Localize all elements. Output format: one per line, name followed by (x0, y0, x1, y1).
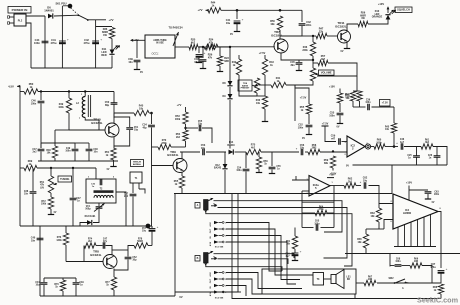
node R59 top (332, 150, 334, 152)
wire C56-R58 (305, 151, 308, 153)
svg-text:C46: C46 (400, 138, 405, 141)
wire osc link2 (75, 142, 89, 144)
wire speaker line (377, 282, 441, 284)
ground gnd C63 (425, 194, 435, 204)
label C46b (396, 138, 405, 145)
capacitor C50 (105, 92, 118, 111)
svg-text:47k: 47k (209, 41, 214, 44)
node det out (393, 145, 396, 148)
svg-text:C25: C25 (407, 155, 412, 157)
svg-text:R61: R61 (286, 241, 291, 243)
wire C52b down (114, 260, 128, 271)
svg-text:C48: C48 (93, 148, 98, 151)
wire R53 bot (185, 124, 187, 130)
wire top rail TR7 (221, 9, 302, 11)
wire LED to rail (111, 56, 113, 69)
wire C49 top (74, 143, 76, 149)
wire D13 left (80, 223, 87, 227)
resistor R52 (105, 148, 116, 160)
resistor R59 (324, 156, 336, 168)
resistor R69 (24, 160, 37, 171)
svg-text:PL2: PL2 (18, 20, 23, 23)
resistor R51b (345, 91, 356, 101)
wire R42 top (238, 55, 240, 59)
svg-text:C54: C54 (237, 167, 242, 170)
svg-text:BA243: BA243 (214, 167, 222, 170)
wire D6 to junction (54, 14, 78, 17)
wire fb c65 l (302, 227, 314, 229)
capacitor C42b (299, 24, 306, 26)
svg-text:C47: C47 (32, 148, 37, 151)
svg-text:560R: 560R (137, 241, 143, 243)
wire RV2 out (259, 84, 271, 86)
wire base from R49 (69, 129, 71, 131)
wire C41c top (43, 278, 45, 282)
wire rail to R69 (20, 167, 24, 169)
label R56b (345, 94, 350, 100)
wire pair top (353, 90, 360, 92)
svg-text:R78: R78 (138, 239, 143, 241)
svg-text:4k7: 4k7 (251, 146, 256, 149)
ic IF transformer T2 (86, 177, 116, 204)
wire jack1 sleeve (206, 210, 352, 266)
capacitor C42 (84, 38, 103, 46)
capacitor C63 (425, 192, 432, 194)
svg-text:SW2: SW2 (389, 278, 395, 280)
wire C38 down (32, 194, 34, 226)
capacitor C40a (128, 58, 140, 64)
wire pot-R72 (50, 193, 52, 197)
wire rail to R50b (20, 91, 24, 93)
capacitor C66 (285, 250, 301, 259)
svg-text:10p: 10p (198, 124, 203, 126)
svg-text:1N4001: 1N4001 (44, 9, 54, 13)
wire main bus (174, 193, 392, 195)
wire C51 bot (114, 130, 130, 146)
wire R76 bot (62, 291, 64, 296)
wire TR8 emit (113, 269, 115, 278)
svg-text:R67: R67 (368, 277, 373, 279)
node tune1 (50, 167, 52, 169)
wire C49 gnd (74, 152, 76, 162)
wire C34 col (151, 113, 153, 124)
wire bus n6 (226, 236, 300, 280)
resistor R50b (24, 83, 38, 94)
switch SW1 (63, 6, 89, 21)
wire R42 bot (239, 75, 257, 96)
resistor R25 (189, 39, 198, 50)
svg-text:+7V: +7V (197, 8, 202, 12)
wire pair botR (359, 101, 361, 107)
svg-text:100n: 100n (329, 114, 335, 117)
led D11 (101, 46, 119, 57)
capacitor C36b (368, 104, 370, 110)
svg-text:100k: 100k (58, 106, 64, 109)
wire R56 to LED (368, 20, 388, 25)
resistor R50 (270, 16, 282, 30)
wire fb top (302, 201, 334, 203)
ground gnd TR11 (341, 49, 351, 54)
label 4.5V (8, 84, 20, 88)
wire TR9 emit (181, 173, 183, 177)
wire tone rail (353, 164, 448, 166)
resistor R26 (204, 44, 218, 49)
svg-text:+10V: +10V (378, 2, 384, 6)
wire VC1 down (98, 209, 100, 220)
label C48 (93, 148, 98, 154)
svg-text:470k: 470k (161, 142, 167, 145)
svg-text:68p: 68p (105, 104, 110, 107)
resistor R68 (433, 284, 444, 294)
watermark (417, 296, 458, 305)
resistor R70 (158, 139, 171, 150)
capacitor C57 (124, 194, 137, 199)
svg-text:68R: 68R (224, 60, 229, 63)
wire R76 top (62, 278, 64, 280)
wire mid rail (345, 253, 460, 255)
wire R62-C62 (356, 185, 361, 187)
svg-text:C51: C51 (134, 127, 139, 129)
ground gnd R72 (48, 209, 57, 215)
svg-text:10u: 10u (201, 147, 206, 150)
resistor R44 (208, 1, 221, 13)
svg-text:C47: C47 (103, 238, 108, 241)
node emitter join (312, 59, 314, 61)
wire aerial tap (139, 189, 145, 194)
resistor R40 (256, 96, 268, 109)
capacitor C26 (428, 147, 441, 166)
capacitor VC1 variable (85, 204, 104, 212)
node SK1 (68, 4, 73, 9)
wire C48 gnd (88, 152, 90, 162)
resistor R63 (370, 208, 381, 222)
label 0V main (179, 295, 182, 299)
resistor R36 (102, 28, 115, 39)
svg-text:10n: 10n (24, 194, 29, 196)
label C63 (434, 192, 440, 197)
wire RV2 bot (256, 93, 258, 96)
resistor R47 (316, 28, 327, 39)
svg-text:100n: 100n (365, 102, 371, 104)
ic IC4 ground pins (398, 215, 431, 247)
label C68 (395, 259, 401, 264)
wire R75-C56 (261, 151, 299, 153)
wire R46 bot (312, 56, 314, 68)
ground gnd R52 (107, 160, 117, 171)
wire bus n13 (226, 291, 241, 293)
svg-text:8R: 8R (347, 279, 350, 281)
label R78 (137, 239, 143, 244)
wire SW1 out (88, 19, 96, 21)
resistor R77 (105, 277, 116, 290)
wire R54 bot (185, 141, 187, 147)
wire TR11 emitter (346, 42, 348, 48)
capacitor C56 (301, 149, 303, 155)
label R26 (208, 54, 213, 60)
svg-text:2M2: 2M2 (312, 147, 317, 150)
svg-text:+7V: +7V (177, 103, 182, 107)
svg-text:C55: C55 (198, 121, 203, 123)
svg-text:2k2: 2k2 (348, 180, 353, 183)
svg-text:+10V: +10V (329, 175, 335, 177)
wire mod arrow (173, 32, 179, 46)
wire R63 bot (378, 222, 380, 229)
capacitor C49b (73, 283, 80, 285)
label preset box (238, 80, 252, 91)
wire fb to coll (106, 246, 113, 255)
svg-text:100k: 100k (41, 204, 47, 206)
label C42b (306, 21, 312, 27)
capacitor C55c (269, 152, 282, 174)
wire R49 down (68, 113, 70, 130)
svg-text:+7V: +7V (108, 18, 113, 22)
wire IC4 gnd rail (394, 246, 436, 248)
capacitor C54 (236, 152, 249, 194)
capacitor C65 (316, 224, 318, 230)
capacitor C52b (125, 257, 132, 259)
svg-text:+: + (67, 38, 69, 42)
svg-text:R74: R74 (88, 238, 93, 241)
resistor R60 (374, 139, 385, 150)
wire TR8 base (66, 261, 103, 263)
svg-text:68k: 68k (324, 162, 329, 165)
svg-text:10u: 10u (300, 147, 305, 150)
svg-text:R56: R56 (263, 161, 268, 163)
wire C42 column (95, 20, 97, 68)
diode D8 (222, 81, 232, 86)
svg-text:0V: 0V (337, 126, 340, 129)
svg-text:OCC1: OCC1 (152, 53, 160, 56)
pot RV2 (252, 78, 260, 93)
svg-text:SC2 908: SC2 908 (215, 298, 224, 300)
svg-text:47p: 47p (103, 240, 108, 243)
node R50 top (279, 9, 282, 12)
svg-text:D13 OA91: D13 OA91 (85, 215, 97, 218)
wire filt row2 (372, 106, 395, 108)
wire TR9 base (152, 165, 174, 167)
wire fb right (333, 186, 335, 228)
wire R77 bot (113, 290, 115, 296)
switch jack2 tip (209, 251, 214, 254)
svg-text:LS1: LS1 (346, 277, 351, 279)
label 0V tone (346, 165, 349, 168)
svg-text:4.5V: 4.5V (209, 272, 212, 277)
svg-text:IN USE: IN USE (156, 43, 164, 45)
resistor R67 (364, 277, 376, 286)
op-amp IC4 (390, 194, 441, 229)
svg-text:4.5V: 4.5V (209, 222, 212, 227)
label SQUELCH (395, 7, 412, 13)
wire tune rail (37, 167, 96, 169)
wire R65 link (366, 228, 379, 230)
wire +7V stub (96, 19, 106, 21)
switch jack1 mid (211, 204, 217, 207)
label POWER IN (8, 7, 31, 14)
wire R73 down (65, 245, 67, 262)
svg-text:100n: 100n (306, 24, 312, 27)
wire C49b top (75, 278, 77, 282)
resistor R73 (56, 233, 68, 245)
label +7V b (197, 8, 208, 12)
svg-text:A: A (197, 204, 199, 207)
capacitor C59 (339, 138, 341, 144)
wire C40 col (39, 226, 41, 296)
svg-text:10u: 10u (363, 179, 368, 182)
wire R73 top (65, 226, 67, 233)
label C62 (360, 177, 368, 184)
wire osc mid (40, 143, 42, 148)
svg-text:+: + (446, 267, 448, 271)
svg-text:0V: 0V (346, 165, 349, 168)
node osc3 (84, 90, 86, 92)
wire R50 to TR7 (279, 30, 281, 39)
wire IC3a out (330, 185, 344, 187)
resistor R66 (410, 259, 422, 269)
svg-text:C36: C36 (366, 100, 371, 102)
resistor R56b (337, 93, 342, 103)
svg-text:2k2: 2k2 (176, 136, 181, 139)
wire fb r64 l (302, 212, 315, 214)
wire TR10 emit (113, 137, 115, 149)
capacitor C35b (100, 179, 102, 185)
wire volume loop (317, 63, 357, 76)
label +7.5V box (380, 100, 391, 107)
wire C37 down (72, 201, 74, 227)
wire C50 down (113, 110, 115, 118)
svg-text:+: + (204, 51, 206, 55)
svg-text:SC1 908: SC1 908 (215, 247, 224, 249)
svg-text:4.5V: 4.5V (209, 241, 212, 246)
wire R65 bot (365, 248, 367, 254)
svg-text:0V: 0V (432, 202, 435, 204)
wire IC4 dec (409, 189, 428, 191)
svg-text:10R: 10R (368, 279, 373, 281)
wire R49 top (68, 92, 70, 99)
node osc2 (68, 90, 70, 92)
svg-text:10u: 10u (142, 231, 147, 233)
ground gnd C66 (292, 256, 298, 261)
wire C48 top (88, 143, 90, 149)
label MW/LW AERIAL (131, 160, 144, 167)
wire fb mid (96, 245, 103, 247)
transistor TR9 (167, 150, 187, 173)
svg-text:100n: 100n (34, 41, 40, 45)
capacitor C57b (142, 225, 159, 233)
wire C57b down (151, 231, 153, 246)
wire bus drop left (174, 194, 176, 297)
svg-text:C63: C63 (434, 192, 439, 194)
svg-text:0V: 0V (341, 50, 344, 53)
wire speaker enclosure (262, 269, 356, 294)
wire R41 out (286, 85, 295, 121)
wire IC4 vcc (408, 186, 410, 201)
wire R26 drop (198, 47, 200, 53)
capacitor C25 (407, 147, 420, 166)
wire C53-D14 (206, 151, 226, 153)
resistor R62 (344, 178, 356, 189)
wire bias link (257, 95, 265, 97)
ground gnd C45 (296, 65, 302, 71)
capacitor C45 (290, 61, 302, 67)
wire C49b bot (75, 285, 77, 296)
wire C46 col (40, 92, 42, 101)
capacitor C68 (395, 265, 402, 267)
svg-text:4k7: 4k7 (191, 41, 196, 44)
label C65 (314, 221, 320, 226)
svg-text:10n: 10n (94, 152, 99, 154)
svg-text:C68: C68 (396, 259, 401, 261)
wire jack1 mid lead (218, 208, 348, 259)
ic oscillator block X1 (145, 35, 175, 58)
capacitor C41 (51, 38, 69, 46)
wire T2 in (95, 168, 97, 179)
node mod A (202, 46, 204, 48)
resistor R76 (54, 280, 65, 291)
wire SK1 drop (61, 6, 63, 16)
resistor R72 (41, 197, 54, 209)
label +7.5V col1 (300, 97, 307, 100)
diode D9 (222, 94, 232, 99)
op-amp IC3a (306, 176, 333, 197)
resistor R41 (271, 77, 286, 88)
resistor R55 (174, 176, 185, 188)
wire tone a (404, 146, 421, 148)
wire TR10 base (71, 129, 105, 131)
capacitor C38 (24, 191, 37, 196)
ground gnd C36 (200, 62, 206, 69)
pot RV1 volume (310, 68, 318, 81)
svg-text:C49: C49 (66, 147, 71, 150)
wire TR7 base (218, 46, 275, 48)
wire bus n12 (226, 286, 246, 297)
inductor T2 coil (94, 190, 114, 198)
label C51 (134, 127, 139, 132)
label TUNING (58, 176, 72, 182)
wire R23 drop (219, 47, 221, 56)
label +7.5V R59 (330, 168, 337, 176)
wire jack1 top lead (214, 201, 343, 232)
wire sub row (389, 254, 391, 267)
resistor R57b (256, 152, 269, 173)
svg-text:100n: 100n (298, 126, 304, 129)
label +7V mix (177, 103, 182, 107)
wire bus n4 (226, 223, 282, 272)
label C47b (103, 238, 108, 244)
label +10V IC3a (327, 175, 335, 178)
wire aerial col (132, 187, 134, 193)
wire IC4 out (438, 212, 441, 269)
svg-text:500p: 500p (85, 209, 91, 211)
svg-text:10u: 10u (36, 285, 41, 287)
label +7V rail a (108, 18, 113, 22)
label C35b (91, 184, 96, 189)
capacitor C37 (70, 198, 77, 200)
ground gnd R40 (262, 121, 268, 123)
ground gnd C40a (134, 62, 144, 74)
wire R48 gnd (54, 158, 56, 161)
svg-text:R48: R48 (46, 149, 51, 152)
wire +7V to R44 (206, 9, 209, 11)
wire rail top (17, 86, 20, 226)
node R46 top (312, 35, 314, 37)
pot RV1 tuning (48, 168, 57, 193)
wire T3 to LS1 (324, 278, 332, 280)
resistor R43 (262, 59, 274, 75)
wire bus n11 (226, 279, 262, 294)
wire L2 top (84, 92, 86, 97)
svg-text:C37: C37 (76, 198, 81, 200)
wire col1 mid (308, 114, 310, 124)
